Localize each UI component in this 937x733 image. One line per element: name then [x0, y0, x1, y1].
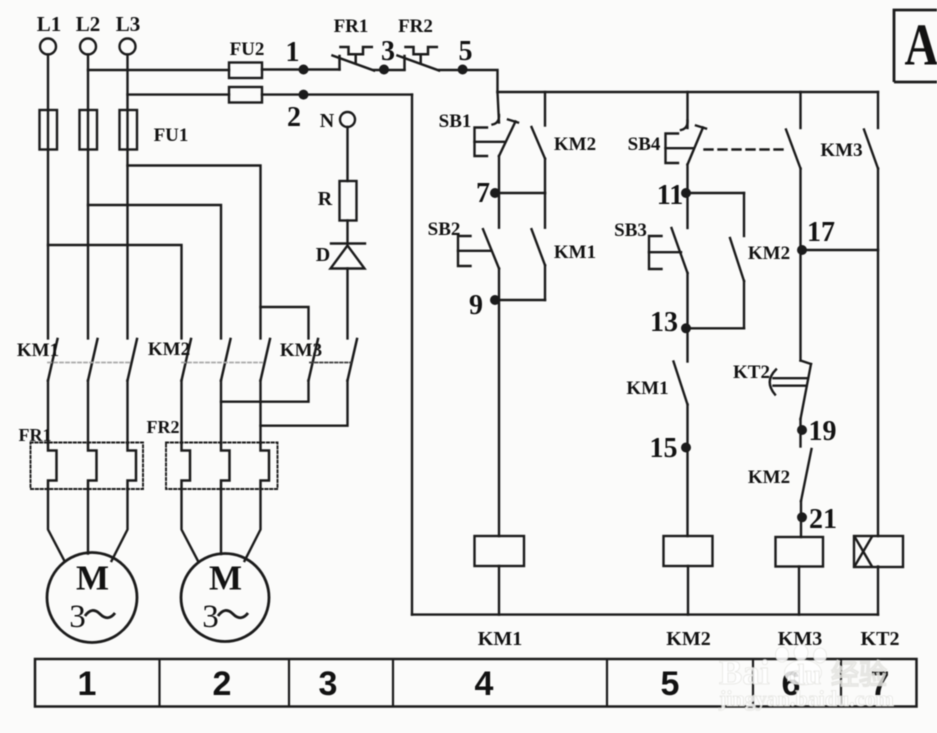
svg-text:15: 15	[650, 433, 678, 464]
wire coil KM2 to bottom rail	[687, 566, 689, 615]
pushbutton SB4	[666, 121, 707, 165]
svg-text:5: 5	[661, 665, 680, 703]
svg-text:KM3: KM3	[280, 340, 322, 361]
wire R to D	[346, 221, 348, 244]
contactor KM2 main contact 3	[261, 339, 271, 381]
terminal L2	[80, 39, 96, 55]
wire L1 to KM2 pole1	[48, 245, 182, 338]
wire FR2 to motor2 right	[245, 489, 261, 561]
contact KM2 aux2	[743, 193, 745, 236]
svg-text:13: 13	[650, 307, 678, 338]
wire KM2 pole3 to FR2	[259, 381, 261, 444]
svg-text:1: 1	[286, 37, 300, 68]
wire node5 to control corner	[439, 70, 498, 92]
svg-text:L1: L1	[37, 12, 62, 36]
coil KT2	[854, 536, 903, 567]
wire SB1 branch top	[498, 92, 500, 123]
wire SB2 to node9	[498, 269, 500, 301]
svg-text:D: D	[316, 244, 330, 266]
wire FU2 lower to control rail	[262, 93, 412, 95]
svg-text:5: 5	[459, 36, 473, 67]
FR2 heater 1	[182, 443, 191, 489]
fuse FU1 pole 3	[120, 110, 138, 150]
terminal L1	[40, 39, 56, 55]
pushbutton SB3	[649, 228, 688, 273]
svg-text:KM1: KM1	[478, 628, 522, 650]
svg-text:KT2: KT2	[861, 628, 900, 650]
wire N to R	[346, 127, 348, 181]
FR2 heater 2	[221, 443, 230, 489]
FR2 heater 3	[261, 443, 270, 489]
KM1 linkage dotted	[48, 362, 129, 364]
svg-text:N: N	[320, 110, 335, 132]
svg-text:2: 2	[213, 665, 232, 703]
svg-text:SB2: SB2	[428, 219, 461, 240]
contactor KM3 main contact 2	[348, 339, 358, 381]
timer contact KT2	[770, 361, 811, 420]
svg-text:SB1: SB1	[439, 111, 472, 132]
contactor KM1 main contact 2	[88, 339, 98, 381]
zone strip frame	[35, 659, 917, 707]
node 1	[299, 65, 309, 75]
wire SB3 column	[686, 193, 688, 228]
contactor KM1 main contact 3	[128, 339, 138, 381]
pushbutton SB1	[475, 115, 519, 156]
KM3 linkage dotted	[310, 362, 351, 364]
node 11	[681, 188, 691, 198]
svg-text:9: 9	[469, 290, 483, 321]
wire KM2 pole1 to FR2	[180, 381, 182, 444]
wire KT2 contact to node19	[799, 419, 801, 447]
node 19	[797, 425, 807, 435]
wire KM2 pole2 to FR2	[220, 381, 222, 444]
sheet label A box	[894, 10, 937, 82]
wire node11 link	[688, 192, 745, 194]
coil KM1	[475, 536, 525, 566]
wire L2 vertical	[87, 55, 89, 339]
wire SB4 branch top	[686, 92, 688, 128]
svg-text:FR1: FR1	[19, 425, 52, 445]
contactor KM2 main contact 1	[182, 339, 192, 381]
dashed mechanical link SB4	[705, 148, 785, 150]
svg-text:KM1: KM1	[17, 340, 59, 361]
svg-text:jingyan.baidu.com: jingyan.baidu.com	[718, 686, 894, 711]
wire KM1 pole2 to FR1	[87, 381, 89, 444]
svg-text:KM1: KM1	[626, 378, 668, 399]
diode D	[331, 244, 366, 269]
fuse FU2 lower	[229, 87, 262, 103]
node 13	[681, 323, 691, 333]
wire FR1 to motor1 mid	[87, 489, 89, 554]
zone divider 1	[158, 659, 160, 707]
svg-text:FU1: FU1	[154, 125, 189, 146]
contact KM1 aux	[544, 193, 546, 228]
contact KM1 aux2	[686, 328, 688, 361]
node 9	[490, 295, 500, 305]
wire coil KM1 to bottom rail	[498, 566, 500, 615]
wire D to KM3 pole2	[346, 269, 348, 339]
contact KM2 aux (seal-in)	[544, 92, 546, 126]
wire L2 to KM2 pole2	[88, 205, 221, 338]
node 21	[797, 512, 807, 522]
motor M1 circle	[47, 553, 137, 643]
svg-text:4: 4	[475, 665, 494, 703]
wire L2 to FU2 upper	[88, 69, 229, 71]
contact KM2 aux3	[801, 449, 812, 501]
wire node9 link	[499, 299, 545, 301]
wire to node15	[686, 405, 688, 537]
wire FR1 to FR2	[374, 69, 405, 71]
svg-text:KT2: KT2	[733, 362, 770, 383]
svg-text:17: 17	[807, 217, 835, 248]
wire L1 vertical	[47, 55, 49, 339]
terminal N	[340, 112, 355, 127]
fuse FU1 pole 2	[80, 110, 98, 150]
svg-text:FR2: FR2	[147, 417, 180, 437]
coil KM2	[664, 536, 713, 566]
svg-text:3: 3	[319, 665, 338, 703]
fuse FU2 upper	[229, 63, 262, 79]
FR1 heater 3	[128, 443, 137, 489]
svg-text:KM2: KM2	[554, 134, 596, 155]
zone divider 4	[606, 659, 608, 707]
svg-text:KM2: KM2	[666, 628, 710, 650]
resistor R	[340, 181, 357, 221]
svg-text:L2: L2	[76, 12, 101, 36]
wire FR2 to motor2 mid	[220, 489, 222, 554]
thermal element FR2 box	[166, 443, 278, 490]
svg-text:7: 7	[476, 178, 490, 209]
node 2	[299, 90, 309, 100]
svg-text:21: 21	[809, 504, 837, 535]
wire bridge to KM3 pole1	[261, 307, 309, 338]
wire coil KM3 to bottom rail	[798, 567, 800, 615]
watermark baidu	[718, 645, 894, 712]
terminal L3	[120, 39, 136, 55]
wire KM1 pole3 to FR1	[126, 381, 128, 444]
wire KM3 pole1 output	[221, 381, 309, 402]
svg-text:KM3: KM3	[820, 140, 862, 161]
wire FR1 to motor1 right	[112, 489, 128, 561]
wire KM1 pole1 to FR1	[47, 381, 49, 444]
zone divider 5	[752, 659, 754, 707]
pushbutton SB2	[458, 229, 499, 268]
svg-text:19: 19	[809, 416, 837, 447]
thermal element FR1 box	[31, 443, 144, 490]
svg-text:3: 3	[381, 36, 395, 67]
svg-text:KM2: KM2	[748, 467, 790, 488]
svg-text:KM2: KM2	[148, 339, 190, 360]
svg-text:FU2: FU2	[230, 39, 265, 60]
svg-text:KM1: KM1	[554, 242, 596, 263]
node 7	[490, 188, 500, 198]
FR1 heater 1	[48, 443, 57, 489]
wire linked contact to node17	[799, 169, 801, 361]
svg-text:SB3: SB3	[614, 220, 647, 241]
coil KM3	[776, 537, 824, 567]
fuse FU1 pole 1	[40, 110, 58, 150]
wire node13 link	[688, 327, 745, 329]
motor M2 circle	[181, 554, 269, 642]
contact SB4 linked NO	[799, 92, 801, 128]
svg-text:FR2: FR2	[398, 16, 433, 37]
svg-text:R: R	[318, 188, 333, 210]
KM2 linkage dotted	[182, 362, 262, 364]
wire control bottom rail	[412, 613, 878, 615]
zone divider 6	[840, 659, 842, 707]
contact KM3 aux	[877, 92, 879, 128]
svg-text:1: 1	[78, 665, 97, 703]
thermal contact FR2	[398, 47, 440, 71]
node 17	[797, 245, 807, 255]
wire coil KT2 to bottom rail	[877, 567, 879, 615]
wire KM3 pole2 output	[261, 381, 348, 426]
wire node7 link	[499, 192, 545, 194]
svg-text:SB4: SB4	[628, 134, 661, 155]
wire L3 to KM2 pole3	[128, 166, 261, 339]
FR1 heater 2	[88, 443, 97, 489]
wire FU2 upper to FR1	[262, 68, 340, 70]
wire SB1 to node7	[498, 156, 500, 228]
node 5	[458, 65, 468, 75]
node 3	[379, 65, 389, 75]
wire node17 link	[801, 249, 879, 251]
wire control top rail	[498, 91, 879, 93]
zone divider 2	[288, 659, 290, 707]
wire L3 vertical	[126, 55, 128, 339]
wire node9 to coil KM1	[498, 300, 500, 536]
thermal contact FR1	[333, 47, 375, 71]
svg-text:3: 3	[202, 599, 219, 635]
contactor KM3 main contact 1	[309, 339, 319, 381]
svg-text:A: A	[904, 11, 937, 77]
svg-text:M: M	[209, 559, 242, 598]
svg-text:L3: L3	[116, 12, 141, 36]
svg-text:KM2: KM2	[748, 243, 790, 264]
svg-text:3: 3	[69, 599, 86, 635]
contactor KM1 main contact 1	[48, 339, 58, 381]
wire right rail	[877, 169, 879, 537]
svg-text:FR1: FR1	[334, 16, 369, 37]
wire control left rail	[411, 95, 413, 615]
wire FR2 to motor2 left	[182, 489, 199, 561]
wire SB4 to node11	[686, 165, 688, 194]
zone divider 3	[392, 659, 394, 707]
contactor KM2 main contact 2	[221, 339, 231, 381]
wire to node21	[800, 501, 802, 537]
wire FR1 to motor1 left	[48, 489, 65, 561]
wire L3 to FU2 lower	[128, 93, 230, 95]
svg-text:2: 2	[287, 102, 301, 133]
node 15	[681, 443, 691, 453]
svg-text:M: M	[76, 559, 109, 598]
svg-text:11: 11	[657, 180, 683, 211]
